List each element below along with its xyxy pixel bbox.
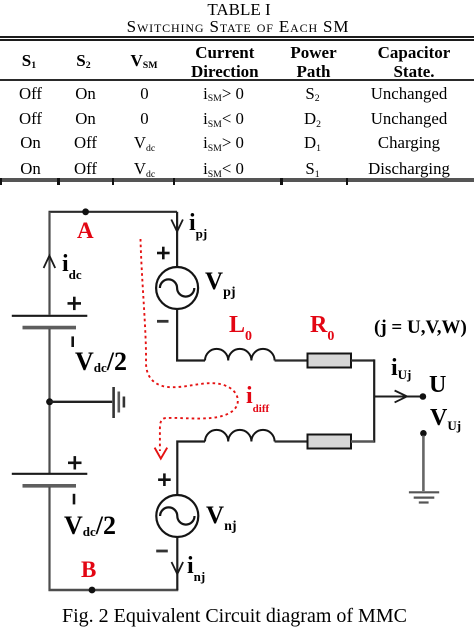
battery V2 plus sign [68,456,82,469]
wire: lower arm corner to coil [177,442,205,495]
inductor L0 upper coil [205,349,275,361]
ground (right) [409,492,439,502]
battery V1 minus plate (thick gray) [23,326,77,330]
node U dot [420,393,427,400]
label V_pj [205,269,236,294]
label i_nj [187,554,205,578]
inductor L0 lower coil [205,430,275,442]
resistor R0 lower box [308,435,352,449]
label i_pj [189,211,207,235]
table bottom rule [0,178,474,182]
row 3 [20,135,41,152]
label V_dc/2 lower [64,513,116,539]
label node A [77,219,94,242]
header VSM [130,52,157,69]
table title [207,1,270,18]
row 1 [19,86,42,103]
plus sign V_pj [157,247,170,260]
wire: V_pj drop from top [176,212,178,267]
AC source U1 (V_pj) [156,267,198,309]
label i_diff [246,384,269,408]
wire: coil to R0 lower [275,440,308,442]
ground (mid, rotated) [114,387,124,418]
label V_nj [206,503,237,528]
node A dot [82,208,89,215]
label L0 [229,313,252,337]
wire: R0 upper to bus [351,359,374,361]
wire: V_Uj ground stub [422,436,425,492]
wire: top horizontal [49,211,178,213]
resistor R0 upper box [308,354,352,368]
row 4 [20,161,41,178]
wire: V_nj to bottom [176,538,178,590]
wire: output to U [374,396,420,398]
header S1 [22,52,36,69]
battery V1 plus sign [68,297,82,310]
label V_dc/2 upper [75,349,127,375]
node B dot [89,587,96,594]
header Current Direction [191,43,259,81]
battery V2 plus plate (thin) [12,473,88,475]
arrow i_pj (down) [171,220,183,232]
battery V1 minus dash [71,336,74,347]
wire: left rail lower [48,487,50,591]
red arrow head of i_diff [155,448,168,459]
header S2 [76,52,90,69]
arrow i_nj (down) [172,562,184,574]
bottom rule ticks [0,178,2,185]
header underline [0,79,474,81]
battery V1 plus plate (thin) [12,315,88,317]
wire: right bus vertical [373,359,375,442]
label node B [81,558,96,581]
label (j = U,V,W) [374,318,467,337]
table subtitle [127,18,350,35]
figure caption [62,606,407,626]
minus sign V_nj [156,550,168,553]
wire: R0 lower to bus [351,440,374,442]
battery V2 minus dash [73,494,76,505]
arrow i_dc (up) [44,256,56,268]
top double rule [0,36,474,38]
AC source U2 (V_nj) [156,495,198,537]
wire: left rail middle [48,329,50,473]
battery V2 minus plate (thick gray) [23,484,77,488]
wire: coil to R0 upper [275,359,308,361]
minus sign V_pj [157,320,169,323]
wire: ground stub [50,401,113,403]
label R0 [310,313,334,337]
header Power Path [290,43,336,81]
node V_Uj dot [420,430,427,437]
arrow i_Uj (right) [395,391,407,403]
red dashed i_diff loop [141,239,238,451]
wire: bottom horizontal [49,589,179,591]
row 2 [19,111,42,128]
label U [429,373,446,397]
plus sign V_nj [158,473,171,486]
label V_Uj [430,406,461,430]
header Capacitor State [378,43,451,81]
label i_Uj [391,356,411,380]
wire: left rail upper [48,212,50,315]
label i_dc [62,252,82,276]
junction dot mid rail [46,398,53,405]
wire: V_pj to upper arm corner [177,310,205,361]
